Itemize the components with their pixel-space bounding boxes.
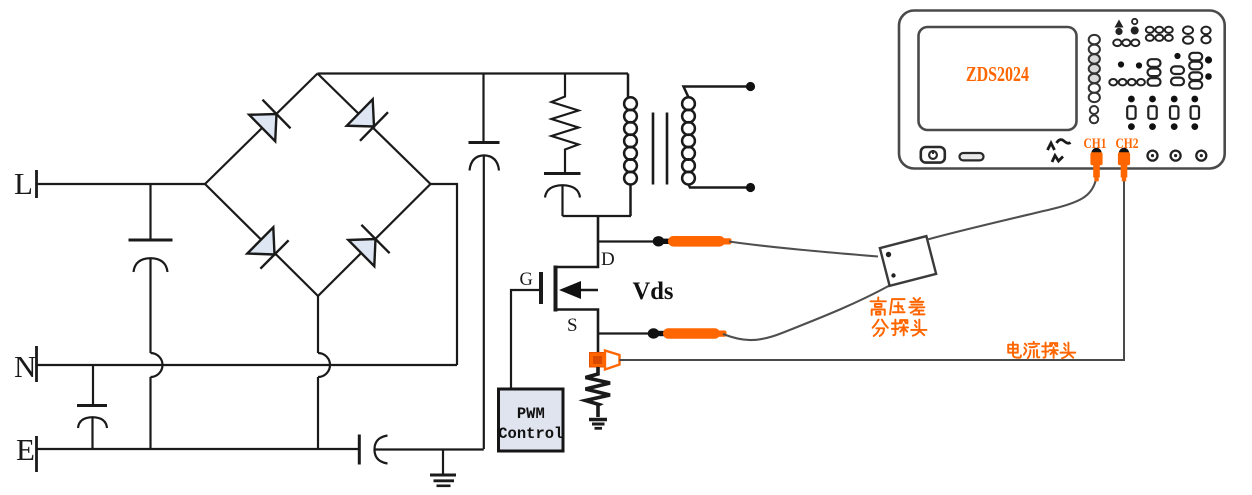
diode D2 (upper-right arm) <box>347 99 388 141</box>
bridge rectifier edge lower-right <box>318 184 431 296</box>
svg-text:PWM: PWM <box>517 405 545 423</box>
PWM controller U1 <box>498 389 563 451</box>
capacitor C5 (snubber) <box>544 174 581 217</box>
stadium buttons column C <box>1189 53 1202 89</box>
char dian <box>1008 342 1021 358</box>
terminal L <box>14 166 37 201</box>
diode D1 (upper-left arm) <box>249 100 290 142</box>
terminal secondary top (dot) <box>746 82 755 91</box>
transformer T1 core <box>653 113 667 185</box>
capacitor C2 (N to E) <box>77 365 107 449</box>
wire snubber bottom <box>563 215 632 217</box>
MOSFET Q1 gate bar <box>539 272 543 304</box>
resistor R2 (source sense) <box>586 367 611 417</box>
capacitor C1 (L line down) with lead <box>129 184 173 353</box>
bridge rectifier edge lower-left <box>205 184 318 296</box>
svg-text:Control: Control <box>498 425 563 443</box>
oscilloscope screen <box>919 27 1077 130</box>
knob column left of panel <box>1089 35 1100 102</box>
wire N rail <box>37 364 458 366</box>
wire hop over N at x=150 <box>151 353 163 377</box>
diff probe terminal + <box>886 252 891 257</box>
terminal secondary bottom (dot) <box>746 183 755 192</box>
MOSFET Q1 channel <box>554 266 558 312</box>
char tou2 <box>1060 343 1075 359</box>
BNC CH2 with orange plug <box>1118 148 1130 182</box>
char tou <box>911 320 926 336</box>
button row of four <box>1109 79 1145 85</box>
button row under trigger icons <box>1113 40 1139 47</box>
usb pill <box>960 153 984 160</box>
differential probe box <box>880 236 936 286</box>
probe clip S (orange) <box>648 328 727 339</box>
wire hop over N at x=318 <box>318 353 330 377</box>
svg-text:G: G <box>520 270 533 290</box>
svg-text:L: L <box>14 166 33 201</box>
panel dots mid <box>1118 53 1212 80</box>
svg-text:E: E <box>16 432 35 467</box>
capacitor C3 (top rail to bottom, Y-cap) <box>469 74 500 450</box>
char gao <box>871 298 886 315</box>
label high-voltage differential probe (Chinese) <box>871 298 927 336</box>
wire L to bridge <box>37 183 206 185</box>
BNC CH1 with orange plug <box>1090 148 1102 182</box>
capacitor C4 (series in E rail) <box>359 435 484 465</box>
button cluster 3x2 <box>1146 27 1173 41</box>
char cha <box>909 298 924 314</box>
power button <box>921 147 945 163</box>
resistor R1 (snubber) <box>552 74 579 174</box>
char tan <box>892 320 908 336</box>
oscilloscope body <box>899 11 1225 169</box>
wire DC top rail <box>318 72 629 74</box>
ground (earth) on E rail <box>430 450 456 486</box>
stadium buttons column B <box>1171 66 1184 85</box>
terminal E <box>16 432 37 472</box>
transformer T1 primary winding <box>624 74 637 217</box>
wire C1 line to E rail <box>149 377 151 449</box>
char tan2 <box>1042 343 1058 358</box>
probe clip D (orange) <box>653 236 732 247</box>
bridge rectifier edge upper-left <box>205 74 318 185</box>
waveform squiggle icon <box>1048 140 1071 162</box>
svg-text:Vds: Vds <box>633 278 674 305</box>
wire differential probe output to CH1 <box>928 180 1096 240</box>
wire source probe tap <box>598 332 649 334</box>
label current probe (Chinese) <box>1008 342 1075 358</box>
wire bottom corner line to E rail <box>317 377 319 449</box>
transformer T1 secondary winding <box>682 87 750 188</box>
wire drain from snubber bottom <box>556 216 599 267</box>
wire current probe cable to CH2 <box>620 180 1125 360</box>
current probe clamp (orange) <box>590 351 620 370</box>
wire bridge bottom corner down <box>317 296 319 353</box>
ground (signal) below R2 <box>589 420 607 429</box>
button pair column 2 <box>1201 27 1210 44</box>
char liu <box>1024 342 1039 358</box>
svg-text:ZDS2024: ZDS2024 <box>966 62 1029 86</box>
MOSFET Q1 source lead <box>556 310 599 353</box>
char ya <box>890 299 904 314</box>
svg-text:D: D <box>601 249 615 270</box>
wire E rail <box>37 448 360 450</box>
stadium buttons column A <box>1148 59 1161 85</box>
MOSFET Q1 body arrow <box>559 281 598 299</box>
wire probe S to differential probe <box>723 286 890 341</box>
vertical control columns (dot-button-dot) x4 <box>1127 96 1199 130</box>
bridge rectifier edge upper-right <box>318 74 431 185</box>
wire drain probe tap <box>598 240 654 242</box>
diode D4 (lower-right arm) <box>348 225 389 266</box>
BNC connector 5 <box>1196 151 1206 161</box>
BNC connector 4 <box>1171 151 1181 161</box>
char fen <box>873 320 888 336</box>
wire bridge right corner to N rail <box>431 184 458 365</box>
svg-text:N: N <box>14 349 36 384</box>
svg-text:S: S <box>567 315 578 336</box>
BNC connector 3 <box>1148 151 1158 161</box>
diode D3 (lower-left arm) <box>247 227 288 268</box>
wire gate to PWM <box>511 290 541 389</box>
button pair column 1 <box>1183 26 1193 43</box>
diff probe terminal - <box>891 273 895 277</box>
knob pair below column <box>1090 106 1098 123</box>
wire probe D to differential probe <box>729 242 878 257</box>
terminal N <box>14 346 37 384</box>
trigger icon A <box>1115 20 1124 36</box>
trigger icon B <box>1131 19 1139 35</box>
